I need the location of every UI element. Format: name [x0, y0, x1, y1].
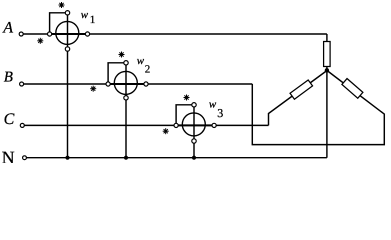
wire line N horizontal: [25, 157, 327, 159]
junction star point: [325, 68, 329, 72]
wire line A horizontal: [21, 33, 327, 35]
terminal line C input: [20, 123, 24, 127]
polarity mark W3 voltage: [184, 95, 190, 101]
terminal W1 bottom: [65, 47, 69, 51]
terminal W3 bottom: [192, 139, 196, 143]
terminal W1 left: [48, 32, 52, 36]
wire phase B detour to right load branch: [252, 71, 384, 145]
polarity mark W1 voltage: [59, 2, 65, 8]
wattmeter W2: [107, 71, 148, 94]
current coil W1 thick segment: [48, 33, 89, 35]
junction W1 on N: [65, 156, 69, 160]
polarity mark W2 voltage: [119, 52, 125, 58]
svg-text:w: w: [81, 9, 89, 21]
wire star point to N: [326, 70, 328, 157]
terminal W3 right: [212, 123, 216, 127]
terminal W2 bottom: [124, 96, 128, 100]
junction W2 on N: [124, 156, 128, 160]
terminal W2 left: [106, 82, 110, 86]
terminal W2 right: [144, 82, 148, 86]
terminal line B input: [20, 82, 24, 86]
terminal W1 right: [85, 32, 89, 36]
junction W3 on N: [192, 156, 196, 160]
wire phase A down to resistor and star point: [326, 34, 328, 70]
svg-text:A: A: [2, 19, 13, 36]
current coil W2 thick segment: [107, 83, 148, 85]
polarity mark W2 current: [90, 86, 96, 92]
terminal W1 top: [65, 11, 69, 15]
svg-text:w: w: [137, 55, 145, 67]
svg-text:1: 1: [90, 14, 96, 26]
terminal W2 top: [124, 61, 128, 65]
terminal W3 left: [174, 123, 178, 127]
wire wattmeter W2 bracket: [108, 63, 126, 84]
polarity mark W1 current: [37, 38, 43, 44]
current coil W3 thick segment: [175, 124, 216, 126]
polarity mark W3 current: [163, 128, 169, 134]
wire phase C up to left load branch: [269, 71, 328, 126]
wattmeter W3: [175, 113, 216, 136]
wire line B horizontal: [22, 83, 253, 85]
resistor R2 (left diagonal branch, phase C): [290, 80, 313, 99]
resistor R1 (phase A, vertical): [324, 42, 331, 67]
svg-text:N: N: [2, 147, 15, 163]
svg-text:2: 2: [145, 63, 151, 75]
wire wattmeter W3 voltage branch vertical: [193, 105, 195, 158]
wire wattmeter W1 voltage branch vertical: [67, 13, 69, 158]
wire wattmeter W3 bracket: [176, 105, 194, 126]
wire line C horizontal: [22, 124, 268, 126]
terminal W3 top: [192, 103, 196, 107]
terminal line A input: [19, 32, 23, 36]
svg-text:B: B: [4, 69, 13, 85]
svg-text:C: C: [4, 111, 15, 128]
wire wattmeter W1 bracket: [50, 13, 68, 34]
resistor R3 (right diagonal branch, phase B): [342, 79, 363, 99]
wattmeter W1: [48, 21, 89, 44]
terminal line N input: [23, 156, 27, 160]
wire wattmeter W2 voltage branch vertical: [125, 63, 127, 158]
svg-text:w: w: [209, 98, 217, 110]
svg-text:3: 3: [217, 106, 223, 120]
